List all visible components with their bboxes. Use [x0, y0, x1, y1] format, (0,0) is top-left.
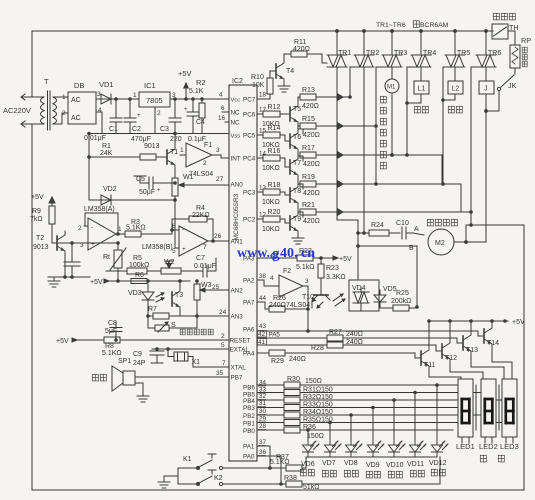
svg-text:R31Ω150: R31Ω150: [303, 387, 333, 394]
svg-text:T14: T14: [487, 340, 499, 347]
svg-text:SP1: SP1: [118, 358, 131, 365]
svg-text:+5V: +5V: [339, 256, 352, 263]
svg-text:K2: K2: [214, 475, 223, 482]
label heater CJK vertical: [522, 47, 527, 53]
svg-text:T2: T2: [36, 235, 44, 242]
svg-text:W2: W2: [164, 259, 175, 266]
opto light arrows: [156, 293, 164, 297]
svg-text:INT: INT: [231, 156, 241, 163]
svg-text:C4: C4: [196, 119, 205, 126]
svg-text:420Ω: 420Ω: [303, 161, 320, 168]
transistor T14: [478, 331, 484, 336]
potentiometer W2: [161, 268, 181, 274]
svg-text:TR6: TR6: [488, 50, 501, 57]
solenoid L2: [454, 67, 456, 81]
svg-text:+5V: +5V: [31, 194, 44, 201]
svg-text:10KΩ: 10KΩ: [262, 199, 280, 206]
segment line PB0, resistor R36: [257, 429, 284, 431]
text water-level sensor label: [180, 329, 185, 335]
wire W1 bottom to LM358B pin5: [175, 200, 179, 248]
resistor R15: [300, 123, 316, 129]
triac TR6: [485, 31, 487, 55]
label washing motor CJK: [427, 219, 433, 226]
svg-text:220: 220: [170, 136, 182, 143]
svg-text:F1: F1: [204, 142, 212, 149]
wire TR2 bus down: [363, 67, 365, 233]
washing motor M2: [428, 229, 454, 255]
svg-text:0.01μF: 0.01μF: [194, 263, 216, 270]
svg-text:3: 3: [305, 278, 309, 285]
svg-text:PA4: PA4: [243, 351, 255, 358]
resistor R29: [257, 352, 269, 354]
svg-text:25: 25: [212, 284, 220, 291]
wire PA3 to R22: [257, 257, 297, 259]
wire PA6 row: [257, 330, 478, 332]
svg-text:AC: AC: [71, 97, 81, 104]
svg-text:JK: JK: [508, 81, 517, 90]
svg-text:R19: R19: [302, 174, 315, 181]
diode VD5: [374, 295, 386, 302]
svg-text:VD8: VD8: [344, 460, 358, 467]
wire PC2 to R20: [257, 218, 263, 220]
svg-text:TR5: TR5: [457, 50, 470, 57]
svg-text:LED3: LED3: [500, 442, 519, 451]
svg-text:C2: C2: [132, 126, 141, 133]
svg-text:7: 7: [203, 244, 207, 251]
svg-text:R25: R25: [396, 290, 409, 297]
svg-text:470μF: 470μF: [131, 136, 151, 143]
triac TR4: [420, 31, 422, 55]
svg-text:26: 26: [214, 233, 222, 240]
svg-text:Rt: Rt: [103, 254, 110, 261]
svg-text:PB7: PB7: [231, 375, 243, 382]
svg-text:R9: R9: [32, 208, 41, 215]
resistor R5: [106, 270, 127, 272]
transistor T1: [167, 145, 175, 169]
segment line PB1, resistor R35: [257, 422, 284, 424]
svg-text:100kΩ: 100kΩ: [129, 262, 149, 269]
svg-text:420Ω: 420Ω: [303, 190, 320, 197]
potentiometer W1: [172, 178, 178, 196]
svg-text:5.1K: 5.1K: [189, 88, 204, 95]
svg-text:R1: R1: [102, 143, 111, 150]
resistor R6: [131, 279, 147, 284]
svg-text:R38: R38: [284, 475, 297, 482]
capacitor C5: [153, 182, 175, 184]
svg-text:PB3: PB3: [243, 405, 255, 412]
watermark: [237, 246, 315, 262]
svg-text:T7: T7: [293, 160, 301, 167]
svg-text:TR4: TR4: [423, 50, 436, 57]
svg-text:3: 3: [172, 92, 176, 99]
resistor R37: [286, 465, 302, 471]
svg-text:PB1: PB1: [243, 421, 255, 428]
svg-text:-: -: [91, 224, 93, 231]
svg-text:36: 36: [259, 449, 267, 456]
wire nest step-down 2: [460, 184, 462, 212]
svg-text:PC7: PC7: [243, 97, 256, 104]
svg-text:PC4: PC4: [243, 156, 256, 163]
svg-text:LM358(B): LM358(B): [142, 244, 173, 251]
svg-text:AC: AC: [71, 115, 81, 122]
solenoid L1: [420, 67, 422, 81]
svg-text:24K: 24K: [100, 150, 113, 157]
resistor R10: [267, 78, 273, 94]
op-amp LM358(B) U3B: [179, 226, 208, 256]
LED VD11: [410, 439, 427, 457]
svg-text:LED1: LED1: [456, 442, 475, 451]
svg-text:R11: R11: [294, 39, 306, 46]
triac TR3: [391, 31, 393, 55]
svg-text:420Ω: 420Ω: [293, 46, 310, 53]
transistor T8: [290, 183, 298, 207]
svg-text:+5V: +5V: [90, 279, 103, 286]
svg-text:TR1: TR1: [338, 50, 351, 57]
wire PA1 to K1: [257, 446, 270, 468]
transistor T12: [436, 345, 442, 351]
wire nest step-down 1: [441, 155, 443, 184]
transistor T11: [415, 353, 421, 358]
svg-text:240Ω: 240Ω: [346, 331, 363, 338]
label inlet water CJK: [414, 106, 420, 113]
svg-text:T8: T8: [293, 188, 301, 195]
svg-text:10KΩ: 10KΩ: [262, 226, 280, 233]
svg-text:C10: C10: [396, 220, 409, 227]
resistor R9: [49, 206, 55, 224]
svg-text:2: 2: [203, 160, 207, 167]
ground rail / Vss net: [89, 133, 229, 135]
transistor T6: [290, 129, 298, 153]
heater resistor RP: [510, 45, 520, 68]
svg-text:PB2: PB2: [243, 413, 255, 420]
label status CJK row: [300, 469, 306, 476]
svg-text:PC3: PC3: [243, 190, 256, 197]
wire TR2 gate riser: [350, 67, 355, 97]
svg-text:24: 24: [219, 309, 227, 316]
svg-text:-: -: [182, 226, 184, 233]
svg-text:J: J: [484, 86, 488, 93]
svg-text:29: 29: [259, 416, 267, 423]
op-amp LM358(A) U3A: [88, 218, 116, 250]
svg-text:1: 1: [133, 92, 137, 99]
svg-text:R12: R12: [268, 104, 281, 111]
label M1 motor name CJK vertical: [380, 96, 386, 103]
svg-text:BCR6AM: BCR6AM: [420, 22, 449, 29]
svg-text:LM358(A): LM358(A): [84, 206, 115, 213]
LED VD12: [432, 439, 449, 457]
ground rail T2: [48, 276, 90, 278]
svg-text:R23: R23: [326, 265, 339, 272]
svg-text:VD3: VD3: [128, 290, 142, 297]
svg-text:PA6: PA6: [243, 327, 255, 334]
svg-text:31: 31: [259, 400, 267, 407]
inverter F1: [186, 143, 212, 167]
svg-text:30: 30: [259, 408, 267, 415]
svg-text:T: T: [44, 77, 49, 86]
svg-text:R26: R26: [273, 295, 286, 302]
svg-text:R10: R10: [251, 74, 264, 81]
potentiometer W3: [194, 284, 200, 300]
svg-text:AN3: AN3: [231, 314, 244, 321]
svg-text:0.01μF: 0.01μF: [84, 135, 106, 142]
+5V feed RESET: [74, 339, 104, 341]
wire TR6 gate riser: [471, 67, 477, 225]
capacitor C6: [71, 243, 73, 262]
svg-text:28: 28: [259, 423, 267, 430]
svg-text:VD5: VD5: [383, 286, 397, 293]
svg-text:NC: NC: [231, 110, 241, 117]
LED VD8: [346, 439, 363, 457]
transformer T: [41, 97, 45, 124]
crystal X1: [174, 352, 188, 361]
svg-text:R5: R5: [133, 255, 142, 262]
svg-text:10KΩ: 10KΩ: [262, 165, 280, 172]
svg-text:7kΩ: 7kΩ: [30, 216, 43, 223]
svg-text:3: 3: [97, 91, 101, 98]
svg-text:TR1~TR6: TR1~TR6: [376, 22, 406, 29]
diode VD1: [96, 98, 139, 100]
svg-text:420Ω: 420Ω: [303, 218, 320, 225]
svg-text:F2: F2: [283, 268, 291, 275]
resistor R11: [291, 51, 307, 57]
wire PC6 to R12: [257, 113, 263, 115]
svg-text:VD6: VD6: [301, 461, 315, 468]
svg-text:+: +: [91, 241, 95, 248]
svg-text:PA7: PA7: [243, 300, 255, 307]
capacitor C10: [401, 227, 403, 239]
svg-text:W3: W3: [201, 282, 212, 289]
svg-text:420Ω: 420Ω: [302, 103, 319, 110]
resistor R3: [125, 231, 141, 237]
microcontroller IC2 MC68HC05SR3: [229, 85, 257, 461]
svg-text:+: +: [157, 188, 161, 194]
svg-text:2: 2: [62, 110, 66, 117]
svg-text:VD4: VD4: [352, 285, 366, 292]
svg-text:RP: RP: [521, 36, 531, 45]
resistor R26: [257, 302, 269, 309]
svg-text:43: 43: [259, 323, 267, 330]
capacitor C8: [115, 322, 117, 328]
svg-text:40. cn: 40. cn: [280, 246, 315, 261]
svg-text:6: 6: [172, 223, 176, 230]
display LED3: [502, 379, 517, 437]
svg-text:74LS04: 74LS04: [286, 302, 310, 309]
svg-text:R33Ω150: R33Ω150: [303, 402, 333, 409]
motor M1: [391, 67, 393, 79]
svg-text:27: 27: [216, 176, 224, 183]
svg-text:C9: C9: [133, 351, 142, 358]
svg-text:B: B: [409, 245, 414, 252]
svg-text:A: A: [414, 226, 419, 233]
svg-text:22KΩ: 22KΩ: [192, 212, 210, 219]
svg-text:M1: M1: [387, 85, 396, 91]
svg-text:1: 1: [180, 147, 184, 154]
resistor R24: [358, 232, 369, 234]
svg-text:W1: W1: [183, 174, 194, 181]
svg-text:R6: R6: [135, 272, 144, 279]
water level sensor S: [148, 316, 155, 328]
inverter F2: [257, 280, 279, 286]
segment line PB2, resistor R34: [257, 414, 284, 416]
svg-text:R15: R15: [302, 116, 315, 123]
svg-text:R18: R18: [268, 182, 281, 189]
+5V arrow top: [185, 85, 187, 99]
segment line PB3, resistor R33: [257, 407, 284, 409]
svg-text:32: 32: [259, 393, 267, 400]
svg-text:C7: C7: [196, 255, 205, 262]
svg-text:4: 4: [270, 275, 274, 282]
phototransistor T3: [172, 287, 180, 311]
svg-text:240Ω: 240Ω: [346, 339, 363, 346]
label thermostat CJK: [493, 13, 499, 20]
label hour minute CJK: [480, 455, 486, 462]
display interconnect stubs: [475, 385, 477, 430]
LED VD3 optocoupler emitter: [147, 284, 149, 292]
svg-text:2: 2: [157, 110, 161, 117]
svg-text:PC6: PC6: [243, 112, 256, 119]
wire PC5 to R14: [257, 134, 263, 136]
svg-text:+5V: +5V: [178, 69, 192, 78]
svg-text:T6: T6: [293, 134, 301, 141]
svg-text:PA0: PA0: [243, 454, 255, 461]
svg-text:R7: R7: [148, 306, 157, 313]
resistor R21: [300, 209, 316, 215]
svg-text:R20: R20: [268, 209, 281, 216]
svg-text:240Ω: 240Ω: [289, 356, 306, 363]
resistor R27: [257, 337, 327, 339]
svg-text:38: 38: [259, 273, 267, 280]
svg-text:M2: M2: [435, 240, 445, 247]
svg-text:35: 35: [216, 370, 224, 377]
svg-text:1: 1: [118, 226, 122, 233]
svg-text:R13: R13: [302, 87, 315, 94]
svg-text:IC2: IC2: [232, 78, 243, 85]
resistor R22: [297, 255, 313, 261]
svg-text:200kΩ: 200kΩ: [391, 298, 411, 305]
node A: [413, 233, 424, 235]
svg-text:5μF: 5μF: [105, 328, 117, 335]
node B: [358, 245, 417, 247]
thermistor Rt: [114, 250, 122, 268]
wire TR1 bus down: [337, 67, 358, 280]
svg-text:16: 16: [218, 115, 226, 122]
svg-text:AN2: AN2: [231, 288, 244, 295]
svg-text:R16: R16: [268, 148, 281, 155]
svg-text:24P: 24P: [133, 360, 146, 367]
switch JK: [514, 68, 516, 74]
resistor R38: [286, 481, 302, 487]
svg-text:PC5: PC5: [243, 133, 256, 140]
LED VD10: [389, 439, 406, 457]
opto-triac VD4: [349, 280, 379, 311]
LED VD6: [303, 439, 320, 457]
transistor T2: [57, 231, 65, 255]
svg-text:www.: www.: [237, 246, 270, 261]
wire PC4 to R16: [257, 157, 263, 159]
resistor R23: [318, 264, 324, 278]
svg-text:37: 37: [259, 439, 267, 446]
svg-text:VD12: VD12: [429, 460, 447, 467]
svg-text:VD11: VD11: [407, 461, 424, 468]
svg-text:7: 7: [222, 360, 226, 367]
wire PA0 to K2: [257, 456, 281, 484]
svg-text:10K: 10K: [252, 82, 265, 89]
svg-text:T1: T1: [170, 149, 178, 156]
svg-text:+: +: [182, 246, 186, 253]
LED common rail: [306, 456, 437, 458]
transistor T13: [457, 338, 463, 343]
svg-text:50μF: 50μF: [139, 189, 155, 196]
svg-text:5.1KΩ: 5.1KΩ: [102, 350, 122, 357]
transistor T4: [276, 59, 284, 83]
svg-text:+: +: [184, 107, 188, 113]
svg-text:PA5: PA5: [269, 332, 281, 339]
svg-text:4: 4: [219, 92, 223, 99]
resistor R2: [199, 103, 205, 118]
svg-text:+: +: [137, 113, 141, 119]
svg-text:9013: 9013: [33, 244, 49, 251]
svg-text:T13: T13: [466, 347, 478, 354]
svg-text:R4: R4: [196, 205, 205, 212]
text alarm label: [92, 374, 98, 381]
svg-text:R27: R27: [329, 329, 342, 336]
wire left vertical node: [88, 134, 90, 201]
svg-text:AN0: AN0: [231, 182, 244, 189]
svg-text:T4: T4: [286, 68, 294, 75]
svg-text:3.3KΩ: 3.3KΩ: [326, 274, 346, 281]
triac TR1: [336, 31, 338, 55]
svg-text:RESET: RESET: [230, 338, 251, 345]
svg-text:VD2: VD2: [103, 186, 117, 193]
svg-text:R2: R2: [196, 78, 206, 87]
svg-text:S: S: [171, 322, 176, 329]
svg-text:T11: T11: [424, 362, 436, 369]
diode VD2: [89, 199, 175, 201]
svg-text:C8: C8: [108, 320, 117, 327]
svg-text:R8: R8: [105, 343, 114, 350]
regulator IC1 7805: [139, 92, 170, 107]
svg-text:TR2: TR2: [366, 50, 379, 57]
svg-text:PC2: PC2: [243, 217, 256, 224]
svg-text:5.1KΩ: 5.1KΩ: [126, 225, 146, 232]
svg-text:+5V: +5V: [56, 338, 69, 345]
wire secondary to DB: [53, 96, 68, 98]
svg-text:XTAL: XTAL: [231, 365, 247, 372]
svg-text:T5: T5: [293, 106, 301, 113]
svg-text:5: 5: [172, 248, 176, 255]
svg-text:IC1: IC1: [144, 81, 156, 90]
resistor R1: [89, 156, 140, 158]
resistor R4 feedback: [172, 219, 189, 230]
AC220V source terminals: [22, 96, 44, 98]
resistor R7: [148, 315, 153, 317]
svg-text:R35Ω150: R35Ω150: [303, 417, 333, 424]
wire PC3 to R18: [257, 191, 263, 193]
svg-text:51kΩ: 51kΩ: [303, 484, 320, 491]
svg-text:MC68HC05SR3: MC68HC05SR3: [233, 193, 240, 240]
svg-text:+5V: +5V: [512, 319, 525, 326]
svg-text:150Ω: 150Ω: [305, 378, 322, 385]
ground T9 emitter: [292, 237, 304, 239]
capacitor C1: [115, 99, 117, 118]
bridge rectifier DB: [68, 92, 96, 124]
svg-text:18: 18: [259, 92, 267, 99]
wire PC7 to R10: [257, 98, 270, 100]
segment line PB4, resistor R32: [257, 399, 284, 401]
wire TR4 gate riser: [407, 67, 412, 155]
svg-text:R29: R29: [271, 358, 284, 365]
svg-text:Vcc: Vcc: [231, 98, 241, 104]
